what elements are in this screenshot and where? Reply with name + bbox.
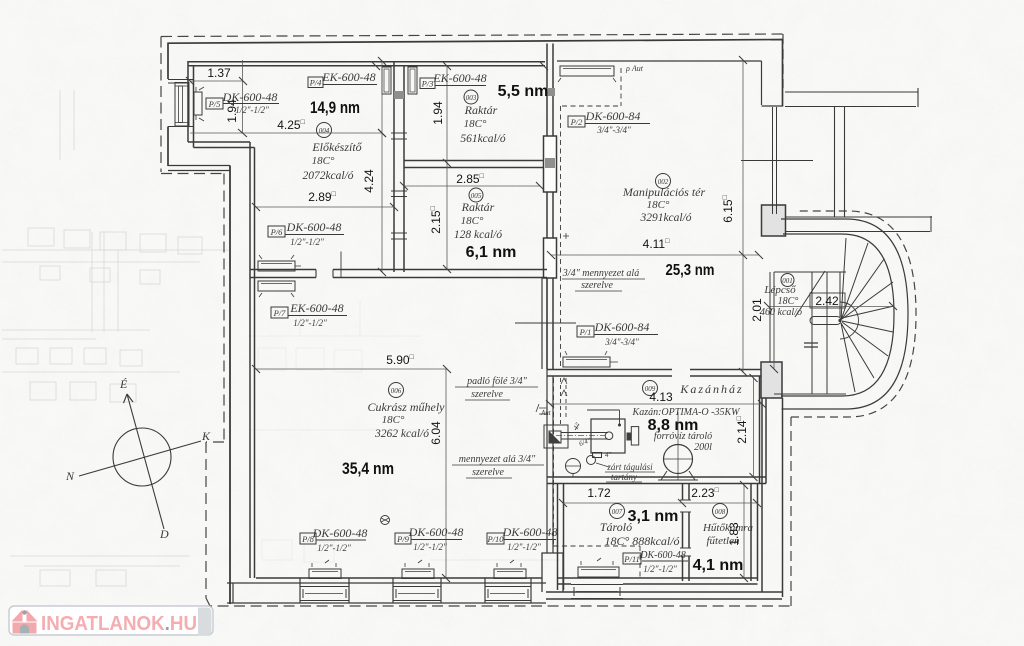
outer left main wall xyxy=(229,166,231,605)
svg-text:DK-600-48: DK-600-48 xyxy=(286,220,342,234)
svg-text:EK-600-48: EK-600-48 xyxy=(432,71,486,85)
svg-text:DK-600-48: DK-600-48 xyxy=(502,525,558,539)
svg-text:1/2"-1/2": 1/2"-1/2" xyxy=(290,237,324,247)
stair newel slot xyxy=(810,317,841,325)
flue heat-exchanger outer box xyxy=(544,425,568,448)
room 002 circle xyxy=(656,174,671,189)
stair straight treads xyxy=(812,272,840,394)
radiator P5 room 004 xyxy=(194,92,202,115)
svg-text:DK-600-48: DK-600-48 xyxy=(312,526,368,540)
svg-text:006: 006 xyxy=(391,387,402,395)
bottom wall window piers left section xyxy=(233,578,531,603)
svg-text:1/2"-1/2": 1/2"-1/2" xyxy=(413,542,447,552)
dashed property boundary right upper xyxy=(782,34,784,88)
corridor wall pier lower xyxy=(544,238,557,278)
label P2 xyxy=(568,116,585,127)
room 004 left step wall xyxy=(188,142,255,148)
storage zone bottom inner wall xyxy=(558,578,758,584)
expansion tank leader xyxy=(596,463,609,467)
svg-text:1.37: 1.37 xyxy=(207,66,231,80)
divider door jambs xyxy=(680,500,691,556)
svg-text:3,1 nm: 3,1 nm xyxy=(628,508,679,525)
stair winder treads radial xyxy=(841,238,894,392)
svg-text:18C°: 18C° xyxy=(647,199,670,211)
cold room east wall xyxy=(751,484,758,582)
burner pipe circle xyxy=(605,432,613,440)
corridor wall pier upper xyxy=(544,136,557,192)
svg-text:1/2"-1/2": 1/2"-1/2" xyxy=(507,542,541,552)
dim line 4.13 xyxy=(550,403,762,405)
svg-text:2.42: 2.42 xyxy=(815,294,839,308)
bottom wall of rooms 004/005 zone xyxy=(250,270,547,278)
svg-text:007: 007 xyxy=(612,508,623,516)
svg-text:1/2"-1/2": 1/2"-1/2" xyxy=(643,564,677,574)
party wall vertical pair xyxy=(835,107,845,218)
svg-text:DK-600-48: DK-600-48 xyxy=(222,90,278,104)
heating pipe dashed manipulation room xyxy=(561,68,622,368)
heating pipe dashed boiler room xyxy=(561,378,567,425)
dim line 5.90 xyxy=(256,368,447,370)
svg-text:1.83: 1.83 xyxy=(727,522,741,546)
aut arrows xyxy=(561,378,567,396)
dim chain manipulation x743 (6.15) xyxy=(742,60,744,372)
room 007 circle xyxy=(610,504,625,519)
svg-text:3/4"-3/4": 3/4"-3/4" xyxy=(596,125,631,135)
boiler top sensor line xyxy=(587,410,620,425)
hot water tank circle xyxy=(664,445,693,474)
bay inner wall xyxy=(781,234,894,396)
label P6 xyxy=(268,226,285,237)
boiler room bottom wall xyxy=(547,477,766,484)
room 005 circle xyxy=(469,188,483,202)
svg-text:3/4"-3/4": 3/4"-3/4" xyxy=(604,337,639,347)
pipe coupling nub xyxy=(627,433,632,441)
svg-text:szerelve: szerelve xyxy=(581,280,613,291)
svg-text:Cukrász műhely: Cukrász műhely xyxy=(368,400,446,414)
wall between room 004 and room 003 xyxy=(394,61,404,272)
boiler room top wall xyxy=(547,370,766,377)
svg-text:P/11: P/11 xyxy=(623,554,639,564)
svg-text:EK-600-48: EK-600-48 xyxy=(289,301,343,315)
stair break double tick xyxy=(804,343,818,347)
svg-text:4.13: 4.13 xyxy=(649,390,673,404)
radiator P2 manipulation room top xyxy=(560,66,614,76)
workshop east wall xyxy=(542,278,553,554)
svg-text:P/4: P/4 xyxy=(309,78,323,88)
party wall end tick xyxy=(930,216,932,232)
svg-text:3/4" mennyezet alá: 3/4" mennyezet alá xyxy=(562,268,639,279)
svg-text:P/3: P/3 xyxy=(421,79,434,89)
svg-text:2.01: 2.01 xyxy=(750,298,764,322)
door jambs in wall to workshop xyxy=(316,270,333,278)
svg-text:É: É xyxy=(119,377,128,391)
room 008 circle xyxy=(713,504,728,519)
svg-text:18C°: 18C° xyxy=(312,155,335,167)
dim line 1.72 / 2.23 xyxy=(563,502,757,504)
radiator P4 room 004 xyxy=(382,67,391,94)
svg-text:3262 kcal/ó: 3262 kcal/ó xyxy=(374,428,429,440)
dim chain workshop x446 (6.04) xyxy=(445,369,447,578)
svg-text:14,9 nm: 14,9 nm xyxy=(310,99,360,117)
svg-text:4.24: 4.24 xyxy=(362,169,376,193)
outer right wall lower xyxy=(762,398,783,597)
compass needle north-south xyxy=(127,394,164,529)
svg-text:P/1: P/1 xyxy=(579,327,592,337)
svg-text:P/2: P/2 xyxy=(570,117,584,127)
stair break line diagonal xyxy=(795,271,825,317)
dim line 2.85 xyxy=(404,185,540,187)
door leaf mark xyxy=(340,252,342,278)
room 004 circle xyxy=(317,123,332,138)
dim chain boiler room x753 (2.14) xyxy=(753,378,755,477)
pipe leader across workshop east wall xyxy=(515,322,576,324)
faint ghost furniture inside workshop xyxy=(250,300,430,562)
wall between room 003 and room 005 xyxy=(404,161,547,168)
svg-text:DK-600-48: DK-600-48 xyxy=(408,525,464,539)
room 004 top wall xyxy=(188,62,545,66)
storage/coldroom divider wall xyxy=(683,484,690,582)
svg-text:DK-600-84: DK-600-84 xyxy=(594,320,650,334)
dim line 2.89 xyxy=(256,206,394,208)
corridor wall east of rooms 003/005 xyxy=(547,44,553,370)
bottom outer wall right section xyxy=(546,592,782,599)
logo house icon xyxy=(12,610,38,634)
svg-text:Lépcső: Lépcső xyxy=(763,284,796,296)
svg-text:DK-600-48: DK-600-48 xyxy=(639,550,686,561)
radiator P7 xyxy=(258,281,295,291)
svg-text:005: 005 xyxy=(471,192,482,200)
dim chain vertical x243 xyxy=(242,60,244,133)
svg-text:DK-600-84: DK-600-84 xyxy=(585,109,641,123)
svg-text:4": 4" xyxy=(605,451,612,459)
room 001 circle xyxy=(781,274,794,287)
logo house door xyxy=(20,624,29,633)
svg-text:Manipulációs tér: Manipulációs tér xyxy=(622,185,706,199)
logo house dot xyxy=(22,610,26,614)
svg-text:6,1 nm: 6,1 nm xyxy=(466,244,517,261)
room 004 left wall xyxy=(188,61,194,148)
svg-text:szerelve: szerelve xyxy=(472,467,504,478)
dim line 4.25 xyxy=(190,132,382,134)
svg-text:35,4 nm: 35,4 nm xyxy=(342,460,394,478)
right wall window pier mid xyxy=(762,205,786,236)
label P8 xyxy=(300,533,316,544)
svg-text:tartány: tartány xyxy=(611,472,637,482)
svg-text:004: 004 xyxy=(319,127,330,135)
label P4 xyxy=(308,77,323,88)
storage west wall xyxy=(558,484,564,591)
sleeve marks on wall 004|003 xyxy=(391,133,407,239)
svg-text:Raktár: Raktár xyxy=(461,200,495,214)
svg-text:460 kcal/ó: 460 kcal/ó xyxy=(760,307,802,318)
svg-text:18C° 888kcal/ó: 18C° 888kcal/ó xyxy=(604,534,679,548)
svg-text:008: 008 xyxy=(715,508,726,516)
pump circle xyxy=(566,459,581,474)
pipe stubs left wall xyxy=(536,404,579,430)
svg-text:561kcal/ó: 561kcal/ó xyxy=(460,133,506,145)
label P5 xyxy=(206,98,223,109)
svg-text:1.94: 1.94 xyxy=(431,101,445,125)
stair hub dot xyxy=(838,319,841,322)
window stairwell west glazing xyxy=(770,272,774,362)
tank legs xyxy=(658,471,698,480)
dashed property boundary left upper xyxy=(161,37,224,174)
dim chain vertical x382 (4.24) xyxy=(381,61,383,272)
radiator P8 xyxy=(309,569,341,579)
faint ghost site-plan left margin xyxy=(92,232,118,332)
junction fill at wall 004|003 top xyxy=(394,91,404,99)
svg-text:K: K xyxy=(201,429,211,443)
outer right wall upper xyxy=(782,40,784,107)
workshop bottom inner wall xyxy=(256,577,542,579)
svg-text:18C°: 18C° xyxy=(778,296,799,307)
outer left wall upper xyxy=(167,43,169,167)
dim chain stair x774 (2.01) xyxy=(773,307,775,370)
pipe flange bar xyxy=(631,427,638,445)
bottom window 2 xyxy=(393,587,441,601)
dim chain room 003/005 x447 xyxy=(446,66,448,269)
compass needle east-west xyxy=(79,441,201,476)
svg-text:4,1 nm: 4,1 nm xyxy=(693,557,744,574)
dashed property boundary left main xyxy=(206,174,224,599)
svg-text:P/7: P/7 xyxy=(273,308,287,318)
svg-text:5,5 nm: 5,5 nm xyxy=(498,83,549,100)
svg-text:EK-600-48: EK-600-48 xyxy=(321,70,375,84)
label P3 xyxy=(420,78,435,89)
bottom window 1 xyxy=(300,587,349,601)
svg-text:1/2"-1/2": 1/2"-1/2" xyxy=(293,318,327,328)
svg-text:szerelve: szerelve xyxy=(471,389,503,400)
party wall lines top right xyxy=(785,88,918,107)
radiator P9 xyxy=(402,569,434,579)
stair bottom edge xyxy=(774,393,846,395)
label P10 xyxy=(487,533,504,544)
manipulation room inner right face xyxy=(761,61,763,105)
outer top wall xyxy=(168,40,783,44)
svg-text:Tároló: Tároló xyxy=(600,520,632,534)
dashed property boundary top xyxy=(161,34,783,37)
workshop west inner wall xyxy=(250,142,255,578)
svg-text:INGATLANOK.HU: INGATLANOK.HU xyxy=(41,613,197,635)
svg-text:6.04: 6.04 xyxy=(429,421,443,445)
stair flight edge top xyxy=(774,271,846,273)
svg-text:3291kcal/ó: 3291kcal/ó xyxy=(639,212,691,224)
bottom wall T-jog pier xyxy=(542,553,563,592)
svg-text:1.72: 1.72 xyxy=(587,486,611,500)
party wall lines above bay xyxy=(785,217,932,232)
svg-text:18C°: 18C° xyxy=(382,414,405,426)
svg-text:padló fölé 3/4": padló fölé 3/4" xyxy=(466,376,528,387)
small plus tick near wall xyxy=(563,233,569,239)
dim ticks xyxy=(186,56,897,582)
boiler foot xyxy=(593,453,602,458)
stair walkline arc xyxy=(840,302,859,339)
level line right side xyxy=(741,160,813,162)
bottom outer wall left section xyxy=(227,583,546,603)
window top-left wall xyxy=(175,83,189,127)
dashed property boundary right lower xyxy=(790,417,792,606)
radiator P1 manipulation room bottom xyxy=(563,357,610,367)
label P9 xyxy=(395,533,411,544)
svg-text:Kazánház: Kazánház xyxy=(679,382,743,396)
room 006 circle xyxy=(389,383,404,398)
dim line 4.11 xyxy=(551,254,759,256)
svg-text:25,3 nm: 25,3 nm xyxy=(666,262,715,279)
boiler room 009 circle xyxy=(643,381,658,396)
dim line 1.37 xyxy=(190,80,243,82)
label P7 xyxy=(271,307,288,318)
svg-text:ρ Aut: ρ Aut xyxy=(625,64,644,73)
dashed boundary around stair bay xyxy=(791,211,916,417)
svg-text:1/2"-1/2": 1/2"-1/2" xyxy=(317,543,351,553)
radiator P10 xyxy=(494,569,526,579)
label P1 xyxy=(577,326,594,337)
svg-text:P/10: P/10 xyxy=(486,534,504,544)
window right wall upper glazing xyxy=(773,107,777,214)
svg-text:D: D xyxy=(159,527,169,541)
bottom window 3 xyxy=(485,587,531,601)
svg-text:2072kcal/ó: 2072kcal/ó xyxy=(302,170,353,182)
boiler unit rectangle xyxy=(591,419,625,453)
svg-text:128 kcal/ó: 128 kcal/ó xyxy=(454,229,502,241)
manipulation room top inner line xyxy=(557,60,762,62)
radiator P6 xyxy=(258,261,295,271)
window sill right xyxy=(762,105,784,107)
label P11 xyxy=(623,553,641,564)
radiator P3 room 003 xyxy=(408,67,417,94)
heating pipe dashed shaft to storage xyxy=(554,378,641,578)
bottom window 4 (storage) xyxy=(571,585,623,599)
svg-text:zárt tágulási: zárt tágulási xyxy=(606,462,653,472)
svg-text:Előkészítő: Előkészítő xyxy=(311,140,362,154)
svg-text:18C°: 18C° xyxy=(461,215,484,227)
svg-text:200l: 200l xyxy=(694,442,712,453)
logo plate xyxy=(9,606,213,635)
small valve circle xyxy=(587,456,596,465)
svg-text:N: N xyxy=(65,469,75,483)
burner pipe xyxy=(561,433,608,440)
svg-text:mennyezet alá 3/4": mennyezet alá 3/4" xyxy=(459,454,536,465)
svg-text:forróvíz tároló: forróvíz tároló xyxy=(654,431,712,442)
bay outer wall xyxy=(781,219,908,409)
svg-text:1/2"-1/2": 1/2"-1/2" xyxy=(235,105,269,115)
svg-text:003: 003 xyxy=(466,94,477,102)
flue heat-exchanger square xyxy=(549,431,561,443)
svg-text:Aut: Aut xyxy=(540,409,552,417)
logo plate right cap xyxy=(198,608,212,636)
dim line 2.42 xyxy=(768,306,893,308)
window recess walls top-left xyxy=(168,80,194,127)
radiator P11 storage xyxy=(578,567,619,577)
room 003 circle xyxy=(464,90,478,104)
dim text 2.42 boxed xyxy=(810,293,845,308)
corridor wall junction fills xyxy=(545,88,555,168)
dashed property boundary bottom xyxy=(206,598,790,606)
outer left step wall xyxy=(168,166,230,171)
svg-text:P/6: P/6 xyxy=(270,227,284,237)
svg-text:P/9: P/9 xyxy=(396,534,410,544)
compass rose circle xyxy=(113,428,171,486)
floor drain symbol workshop xyxy=(381,516,390,525)
svg-text:18C°: 18C° xyxy=(464,118,487,130)
svg-text:P/5: P/5 xyxy=(208,99,221,109)
boiler room east wall xyxy=(760,370,767,484)
svg-text:Raktár: Raktár xyxy=(464,103,498,117)
dim chain cold room x744 (1.83) xyxy=(743,485,745,578)
right wall pier below bay xyxy=(761,362,782,398)
